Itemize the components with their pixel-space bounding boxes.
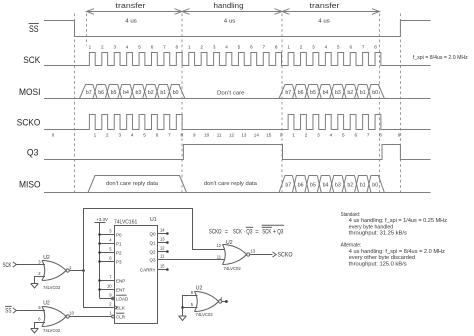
svg-text:14: 14 (160, 228, 165, 233)
svg-text:11: 11 (160, 254, 165, 259)
svg-text:74LVC02: 74LVC02 (224, 266, 242, 271)
ground GND3 (179, 315, 187, 317)
svg-text:P0: P0 (116, 232, 122, 237)
transfer phase arrow (87, 11, 183, 13)
wire U1 Q3 to U2c pin11 (166, 259, 225, 261)
svg-text:74LVC02: 74LVC02 (43, 328, 61, 333)
U1 pin 5 P2 (100, 252, 115, 254)
svg-text:5: 5 (138, 44, 141, 49)
svg-text:3: 3 (317, 132, 320, 137)
wire node SCKn down to U1 CLK (84, 271, 115, 308)
svg-text:throughput: 31.25 kB/s: throughput: 31.25 kB/s (349, 230, 407, 236)
SCK pulse numbers (89, 44, 378, 49)
svg-text:1: 1 (188, 44, 191, 49)
svg-text:Q3: Q3 (246, 229, 253, 235)
svg-text:7: 7 (168, 132, 171, 137)
svg-text:74LVC02: 74LVC02 (196, 312, 214, 317)
U1 pin 7 ENP (100, 280, 115, 282)
svg-text:1: 1 (292, 132, 295, 137)
svg-text:2: 2 (305, 132, 308, 137)
svg-text:12: 12 (216, 243, 221, 248)
NOR gate U2d (195, 292, 198, 312)
U1 pin 15 CARRY (158, 269, 167, 271)
svg-text:b7: b7 (285, 90, 291, 96)
svg-text:3: 3 (312, 44, 315, 49)
svg-text:11: 11 (217, 132, 222, 137)
svg-text:4 us: 4 us (125, 19, 137, 25)
svg-text:b4: b4 (123, 90, 129, 96)
svg-text:4: 4 (325, 44, 328, 49)
svg-text:14: 14 (254, 132, 260, 137)
wire SCK to U2a pin3 (16, 264, 45, 266)
svg-text:U2: U2 (226, 240, 233, 246)
svg-text:SCKO: SCKO (17, 118, 41, 129)
svg-text:2: 2 (101, 44, 104, 49)
node t3 boundary dashed line (281, 14, 283, 196)
svg-text:Q0: Q0 (149, 231, 156, 236)
svg-text:Q3: Q3 (277, 229, 284, 235)
svg-text:ENT: ENT (116, 287, 125, 292)
node t5 boundary dashed line (400, 14, 402, 196)
ground GND1 (31, 283, 39, 285)
svg-text:U2: U2 (43, 300, 50, 306)
svg-text:74LVC02: 74LVC02 (43, 285, 61, 290)
svg-text:Q1: Q1 (149, 240, 156, 245)
handling phase arrow (182, 11, 282, 13)
svg-text:13: 13 (160, 237, 165, 242)
svg-text:b6: b6 (298, 90, 304, 96)
svg-text:4 us handling: f_spi = 8/4us =: 4 us handling: f_spi = 8/4us = 2.0 MHz (349, 249, 445, 255)
svg-text:6: 6 (354, 132, 357, 137)
svg-text:2: 2 (300, 44, 303, 49)
svg-text:SS: SS (29, 24, 39, 35)
svg-text:7: 7 (262, 44, 265, 49)
svg-text:b0: b0 (372, 182, 378, 188)
svg-text:b3: b3 (335, 182, 341, 188)
svg-text:6: 6 (349, 44, 352, 49)
counter state numbers (52, 132, 401, 137)
svg-text:b5: b5 (111, 90, 117, 96)
svg-text:15: 15 (160, 264, 165, 269)
svg-text:+3.3V: +3.3V (96, 217, 108, 222)
svg-text:b0: b0 (173, 90, 179, 96)
svg-text:b2: b2 (347, 182, 353, 188)
svg-text:don't care reply data: don't care reply data (204, 181, 258, 187)
wire U2a pin2 to ground (35, 277, 46, 284)
net Q3 waveform (44, 145, 431, 160)
svg-text:4: 4 (131, 132, 134, 137)
svg-text:5: 5 (238, 44, 241, 49)
wire SS to U2b pin9 (16, 310, 45, 312)
wire U2c output to port SCKO (250, 254, 273, 256)
svg-text:3: 3 (118, 132, 121, 137)
svg-text:13: 13 (251, 249, 256, 254)
net MISO transfer2 data cells (279, 176, 292, 193)
svg-text:12: 12 (229, 132, 235, 137)
svg-text:8: 8 (379, 132, 382, 137)
svg-text:SCKO: SCKO (209, 229, 222, 235)
svg-text:SCK: SCK (3, 263, 12, 269)
svg-text:1: 1 (89, 44, 92, 49)
svg-text:4 us: 4 us (318, 19, 330, 25)
ground GND2 (31, 328, 39, 330)
svg-text:every byte handled: every byte handled (349, 224, 393, 230)
svg-text:don't care reply data: don't care reply data (106, 181, 159, 187)
svg-text:transfer: transfer (116, 1, 147, 10)
net MOSI transfer1 data cells (80, 85, 93, 99)
svg-text:b0: b0 (372, 90, 378, 96)
svg-text:b2: b2 (148, 90, 154, 96)
svg-text:SCK: SCK (233, 229, 242, 235)
node t2 boundary dashed line (181, 14, 183, 196)
svg-text:throughput: 125.0 kB/s: throughput: 125.0 kB/s (349, 261, 407, 267)
svg-text:b6: b6 (98, 90, 104, 96)
U1 pin 6 P3 (100, 261, 115, 263)
svg-text:Alternate:: Alternate: (341, 243, 362, 249)
svg-text:SS: SS (5, 308, 11, 314)
svg-text:2: 2 (106, 132, 109, 137)
svg-text:b3: b3 (335, 90, 341, 96)
node t0 boundary dashed line (74, 14, 76, 196)
svg-text:handling: handling (214, 1, 244, 10)
U1 pin 14 Q0 (158, 233, 167, 235)
svg-text:0: 0 (280, 132, 283, 137)
svg-text:·: · (243, 229, 245, 235)
svg-text:4: 4 (126, 44, 129, 49)
svg-text:5: 5 (143, 132, 146, 137)
svg-text:b4: b4 (323, 182, 329, 188)
svg-text:7: 7 (367, 132, 370, 137)
svg-text:9: 9 (398, 132, 401, 137)
net SCK waveform (44, 53, 431, 66)
svg-text:b5: b5 (310, 182, 316, 188)
NOR gate U2b (42, 307, 45, 327)
svg-text:LOAD: LOAD (116, 296, 129, 301)
net SCKO waveform (44, 115, 431, 130)
svg-text:b7: b7 (285, 182, 291, 188)
U1 pin 13 Q1 (158, 242, 167, 244)
svg-text:b3: b3 (135, 90, 141, 96)
svg-text:10: 10 (69, 311, 74, 316)
U1 pin 10 ENT (100, 289, 115, 291)
svg-text:15: 15 (266, 132, 272, 137)
svg-text:P1: P1 (116, 241, 122, 246)
svg-text:b2: b2 (347, 90, 353, 96)
svg-text:6: 6 (250, 44, 253, 49)
node t4 boundary dashed line (379, 14, 381, 196)
wire U2b output to U1 CLR (69, 316, 111, 318)
wire U2a output to node SCKn (69, 270, 83, 272)
node SCKn junction (82, 269, 85, 272)
U1 pin 9 LOAD (112, 297, 115, 300)
U1 pin 12 Q2 (158, 251, 167, 253)
svg-text:SCK: SCK (23, 55, 41, 66)
port SCKO output (273, 252, 277, 257)
IC U1 74LVC161 body (115, 226, 158, 324)
svg-text:6: 6 (156, 132, 159, 137)
wire node SCKn up and over to U2c input (84, 209, 226, 271)
svg-text:CARRY: CARRY (140, 267, 156, 272)
U1 pin 2 CLK (115, 306, 118, 310)
svg-text:SCK: SCK (262, 229, 271, 235)
svg-text:9: 9 (193, 132, 196, 137)
svg-text:5: 5 (342, 132, 345, 137)
svg-text:Q3: Q3 (149, 257, 156, 262)
transfer phase arrow (282, 11, 380, 13)
svg-text:10: 10 (107, 284, 112, 289)
svg-text:4: 4 (330, 132, 333, 137)
net MISO baseline (44, 192, 431, 194)
svg-text:U2: U2 (196, 285, 203, 291)
net MOSI transfer2 data cells (279, 85, 292, 99)
wire U2d output no-connect (222, 301, 225, 303)
U1 pin 3 P0 (100, 234, 115, 236)
U1 pin 1 CLR (112, 315, 115, 318)
svg-text:1: 1 (287, 44, 290, 49)
svg-text:4: 4 (225, 44, 228, 49)
svg-text:7: 7 (163, 44, 166, 49)
svg-text:=: = (255, 229, 259, 235)
svg-text:b7: b7 (86, 90, 92, 96)
wire +3.3V bus (99, 223, 101, 299)
svg-text:Standard:: Standard: (341, 212, 361, 218)
svg-text:SCKO: SCKO (278, 253, 293, 259)
svg-text:=: = (225, 229, 229, 235)
svg-text:U2: U2 (43, 255, 50, 261)
svg-text:4 us handling: f_spi = 1/4us =: 4 us handling: f_spi = 1/4us = 0.25 MHz (349, 218, 447, 224)
NOR gate U2c (223, 245, 226, 265)
svg-text:74LVC161: 74LVC161 (114, 219, 137, 225)
U1 pin 4 P1 (100, 243, 115, 245)
svg-text:Q2: Q2 (149, 249, 156, 254)
svg-text:7: 7 (362, 44, 365, 49)
svg-text:12: 12 (160, 246, 165, 251)
svg-text:MOSI: MOSI (19, 87, 41, 98)
svg-text:11: 11 (217, 254, 222, 259)
wire U2b pin8 to ground (35, 323, 46, 329)
net MOSI baseline (44, 98, 431, 100)
node t1 boundary dashed line (86, 14, 88, 47)
svg-text:8: 8 (275, 44, 278, 49)
wire U2d inputs to ground (183, 296, 198, 308)
svg-text:3: 3 (113, 44, 116, 49)
svg-text:Don't care: Don't care (217, 90, 245, 96)
svg-text:ENP: ENP (116, 278, 125, 283)
svg-text:b6: b6 (298, 182, 304, 188)
net SS waveform (44, 21, 431, 37)
NOR gate U2a (42, 261, 45, 281)
net MISO reply trapezoid (88, 176, 187, 193)
svg-text:CLR: CLR (116, 314, 126, 319)
svg-text:P3: P3 (116, 259, 122, 264)
svg-text:13: 13 (241, 132, 247, 137)
svg-text:b4: b4 (323, 90, 329, 96)
svg-text:f_spi = 8/4us = 2.0 MHz: f_spi = 8/4us = 2.0 MHz (413, 55, 468, 61)
svg-text:+: + (273, 229, 277, 235)
svg-text:U1: U1 (150, 217, 157, 223)
svg-text:0: 0 (52, 132, 55, 137)
svg-text:8: 8 (176, 44, 179, 49)
svg-text:b1: b1 (160, 90, 166, 96)
svg-text:P2: P2 (116, 250, 122, 255)
svg-text:3: 3 (213, 44, 216, 49)
svg-text:CLK: CLK (116, 305, 125, 310)
svg-text:1: 1 (94, 132, 97, 137)
svg-text:4 us: 4 us (224, 19, 236, 25)
svg-text:every other byte discarded: every other byte discarded (349, 255, 415, 261)
svg-text:8: 8 (374, 44, 377, 49)
svg-text:8: 8 (181, 132, 184, 137)
svg-text:MISO: MISO (19, 180, 41, 191)
svg-text:2: 2 (200, 44, 203, 49)
svg-text:b1: b1 (360, 90, 366, 96)
svg-text:Q3: Q3 (27, 148, 39, 159)
svg-text:b5: b5 (310, 90, 316, 96)
svg-text:transfer: transfer (310, 1, 341, 10)
svg-text:b1: b1 (360, 182, 366, 188)
svg-text:5: 5 (337, 44, 340, 49)
svg-text:6: 6 (151, 44, 154, 49)
U1 pin 11 Q3 (158, 259, 167, 261)
svg-text:10: 10 (204, 132, 210, 137)
